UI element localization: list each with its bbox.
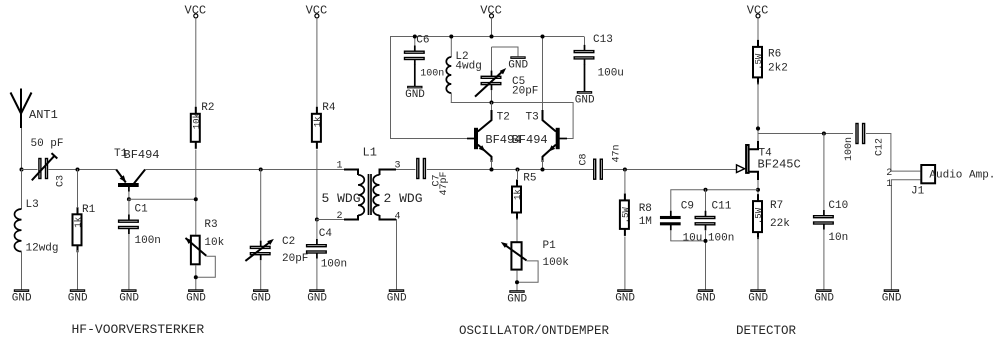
wire C12 to J1 pin2 <box>866 134 920 172</box>
power VCC detector <box>747 4 769 18</box>
svg-text:C10: C10 <box>828 200 848 212</box>
wire J1 pin1 to ground <box>891 180 920 290</box>
wire VCC to R4 <box>316 18 318 107</box>
svg-text:2: 2 <box>886 168 892 179</box>
wire C3 to T1 emitter <box>49 169 117 171</box>
svg-text:C13: C13 <box>593 34 613 46</box>
ground C9/C11 <box>696 290 716 305</box>
wire L1 pin4 down <box>396 219 398 290</box>
wire R4 to L1 pin2 (crosses bus) <box>316 150 318 220</box>
svg-text:GND: GND <box>814 293 834 305</box>
node R1 junction <box>76 168 80 172</box>
ground C10 <box>814 290 834 305</box>
transistor T3 BF494 <box>512 36 567 169</box>
svg-text:L3: L3 <box>26 199 39 211</box>
node C11 top <box>704 188 708 192</box>
svg-text:2 WDG: 2 WDG <box>384 191 423 206</box>
svg-text:100n: 100n <box>321 259 347 271</box>
ground L1 pin4 <box>387 290 407 305</box>
svg-text:12wdg: 12wdg <box>26 243 59 255</box>
svg-text:GND: GND <box>748 293 768 305</box>
resistor R6 <box>753 40 788 85</box>
node antenna/C3/L3 <box>20 168 24 172</box>
node VCC top rail <box>490 35 494 39</box>
svg-text:ANT1: ANT1 <box>29 108 58 122</box>
svg-text:C8: C8 <box>579 153 590 165</box>
wire T1 collector to transformer <box>145 169 358 171</box>
node T4 source <box>756 188 760 192</box>
resistor R8 <box>620 169 652 290</box>
wire oscillator top rail <box>390 36 584 38</box>
svg-text:GND: GND <box>387 293 407 305</box>
wire C9 bottom bracket <box>670 240 705 242</box>
svg-text:R5: R5 <box>523 173 536 185</box>
wire C8 to T4 gate <box>603 169 736 171</box>
node T1 base / C1 <box>127 197 131 201</box>
node R6 / drain / output <box>756 126 760 130</box>
power VCC R4 <box>306 4 328 18</box>
node P1 wiper junction <box>515 280 519 284</box>
wire R5 to P1 <box>516 218 518 242</box>
svg-text:100n: 100n <box>420 68 444 79</box>
svg-text:22k: 22k <box>770 218 790 230</box>
ground R1 <box>68 290 88 305</box>
wire L1 pin3 to C7 <box>396 169 415 171</box>
transistor T4 BF245C <box>737 141 801 180</box>
capacitor C1 <box>119 199 161 290</box>
svg-text:10k: 10k <box>204 237 224 249</box>
svg-text:T3: T3 <box>526 112 539 124</box>
ground R3 <box>186 290 206 305</box>
svg-text:GND: GND <box>12 293 32 305</box>
ground C1 <box>119 290 139 305</box>
connector J1 <box>911 165 995 198</box>
svg-text:GND: GND <box>186 293 206 305</box>
power VCC oscillator <box>480 4 502 18</box>
wire bus into C3 <box>21 169 38 171</box>
svg-text:J1: J1 <box>911 186 925 198</box>
svg-text:100n: 100n <box>844 137 855 161</box>
wire T2 base feedback bracket <box>391 37 468 139</box>
transformer L1 <box>316 146 422 223</box>
wire T1 base down <box>128 192 130 199</box>
ground C4 <box>307 290 327 305</box>
trimmer resistor R3 <box>185 219 224 290</box>
svg-text:L1: L1 <box>363 146 377 160</box>
node L2 top <box>449 35 453 39</box>
node C11 bottom <box>704 239 708 243</box>
node L1 pin2 / C4 <box>315 218 319 222</box>
potentiometer P1 <box>501 240 570 291</box>
resistor R2 <box>191 102 215 149</box>
svg-text:.5W: .5W <box>754 207 764 224</box>
svg-text:R1: R1 <box>82 204 96 216</box>
wire R6 to T4 drain <box>757 83 759 142</box>
svg-text:R6: R6 <box>768 49 781 61</box>
wire antenna to bus <box>21 128 23 169</box>
wire T3 base bracket <box>560 103 573 139</box>
svg-text:100u: 100u <box>598 67 624 79</box>
svg-text:R7: R7 <box>770 200 783 212</box>
svg-text:R3: R3 <box>204 219 217 231</box>
wire VCC to R6 <box>757 18 759 40</box>
svg-text:BF494: BF494 <box>124 148 160 162</box>
wire R2 to bias node (crosses bus) <box>195 150 197 235</box>
svg-text:1: 1 <box>337 161 343 172</box>
svg-text:GND: GND <box>307 293 327 305</box>
svg-text:20pF: 20pF <box>282 253 308 265</box>
svg-text:T2: T2 <box>497 112 510 124</box>
svg-text:C4: C4 <box>319 228 333 240</box>
node T2 emitter <box>490 168 494 172</box>
svg-text:P1: P1 <box>543 240 557 252</box>
ground P1 <box>507 291 527 306</box>
resistor R7 <box>753 194 790 290</box>
svg-text:1k: 1k <box>513 189 523 200</box>
svg-text:100k: 100k <box>543 257 570 269</box>
svg-text:GND: GND <box>696 293 716 305</box>
svg-text:100n: 100n <box>135 235 161 247</box>
svg-text:GND: GND <box>507 293 527 305</box>
wire VCC to top rail <box>491 18 493 36</box>
svg-text:OSCILLATOR/ONTDEMPER: OSCILLATOR/ONTDEMPER <box>459 324 610 338</box>
svg-text:GND: GND <box>508 60 528 72</box>
svg-text:BF245C: BF245C <box>758 158 801 172</box>
resistor R4 <box>312 102 336 149</box>
svg-text:1k: 1k <box>74 217 84 228</box>
node C10 junction <box>822 132 826 136</box>
capacitor C8 <box>579 144 623 179</box>
svg-text:BF494: BF494 <box>512 133 548 147</box>
capacitor C13 <box>574 34 624 91</box>
node T3 emitter <box>541 168 545 172</box>
svg-text:10k: 10k <box>192 113 202 129</box>
wire source bypass rail <box>671 190 758 212</box>
svg-text:C1: C1 <box>135 203 149 215</box>
ground R8 <box>615 290 635 305</box>
svg-text:4: 4 <box>395 212 401 223</box>
capacitor C11 <box>695 189 734 289</box>
ground C2 <box>251 290 271 305</box>
svg-text:GND: GND <box>251 293 271 305</box>
svg-text:Audio Amp.: Audio Amp. <box>929 169 995 181</box>
svg-text:1k: 1k <box>313 116 323 127</box>
wire output rail to C12 <box>758 133 854 135</box>
svg-text:4wdg: 4wdg <box>455 60 481 72</box>
svg-text:1M: 1M <box>639 216 652 228</box>
svg-text:DETECTOR: DETECTOR <box>736 324 797 338</box>
svg-text:47pF: 47pF <box>439 171 450 195</box>
ground J1 <box>882 290 902 305</box>
svg-text:R8: R8 <box>639 203 652 215</box>
wire C7 to emitter bus <box>427 169 593 171</box>
svg-text:50 pF: 50 pF <box>31 138 64 150</box>
resistor R5 <box>512 169 537 220</box>
svg-text:GND: GND <box>405 89 425 101</box>
svg-text:HF-VOORVERSTERKER: HF-VOORVERSTERKER <box>72 322 205 337</box>
capacitor C3 (trimmer) <box>32 153 67 187</box>
ground C13 <box>575 92 595 107</box>
inductor L2 <box>446 36 482 103</box>
transistor T1 BF494 <box>114 148 160 192</box>
wire tank bottom rail <box>451 102 574 104</box>
svg-text:C12: C12 <box>875 138 886 156</box>
svg-text:20pF: 20pF <box>512 86 538 98</box>
node C5 / T2 collector / tank <box>490 101 494 105</box>
svg-text:100n: 100n <box>708 232 734 244</box>
capacitor C2 (variable) <box>245 169 308 290</box>
ground R7 <box>748 290 768 305</box>
node C6 top <box>413 35 417 39</box>
svg-text:GND: GND <box>575 94 595 106</box>
svg-text:5 WDG: 5 WDG <box>322 191 361 206</box>
svg-text:C3: C3 <box>56 175 67 187</box>
inductor L3 <box>14 169 58 290</box>
svg-text:47n: 47n <box>612 144 623 162</box>
svg-text:1: 1 <box>886 179 892 190</box>
svg-text:GND: GND <box>119 293 139 305</box>
power VCC R2 <box>185 4 207 18</box>
node R3 wiper junction <box>194 275 198 279</box>
node T3 collector top rail <box>541 35 545 39</box>
capacitor C9 <box>661 200 703 244</box>
svg-text:C2: C2 <box>282 236 295 248</box>
node R8 top <box>623 168 627 172</box>
node R2/R3 bias <box>194 197 198 201</box>
svg-text:10u: 10u <box>683 232 703 244</box>
svg-text:2: 2 <box>337 211 343 222</box>
ground C5 bracket <box>492 47 529 72</box>
svg-text:.5W: .5W <box>621 207 631 224</box>
capacitor C5 (variable) <box>475 47 538 102</box>
svg-text:2k2: 2k2 <box>768 63 788 75</box>
capacitor C10 <box>814 133 849 290</box>
node R5 top <box>516 168 520 172</box>
antenna ANT1 <box>11 89 58 129</box>
wire base node to R3 column <box>128 198 195 200</box>
capacitor C7 <box>417 159 450 196</box>
transistor T2 BF494 <box>467 102 521 169</box>
svg-text:C11: C11 <box>712 200 732 212</box>
svg-text:C6: C6 <box>416 35 429 47</box>
capacitor C6 <box>405 35 445 86</box>
svg-text:R4: R4 <box>322 102 336 114</box>
svg-text:.5W: .5W <box>754 53 764 70</box>
svg-text:GND: GND <box>615 293 635 305</box>
capacitor C4 <box>307 219 348 290</box>
node C2 junction <box>259 168 263 172</box>
svg-text:C9: C9 <box>681 200 694 212</box>
svg-text:GND: GND <box>68 293 88 305</box>
capacitor C12 <box>844 124 886 162</box>
ground C6 <box>405 86 425 101</box>
svg-text:10n: 10n <box>828 232 848 244</box>
svg-text:GND: GND <box>882 293 902 305</box>
resistor R1 <box>73 169 96 290</box>
wire T4 source down <box>757 180 759 194</box>
ground L3 <box>12 290 32 305</box>
wire VCC to R2 <box>195 18 197 107</box>
svg-text:R2: R2 <box>201 102 214 114</box>
